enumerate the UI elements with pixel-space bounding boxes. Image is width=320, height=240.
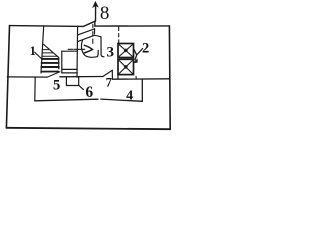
fan diamond upper	[124, 49, 128, 53]
stair hypotenuse	[44, 44, 59, 57]
wall interior bottom right part	[101, 99, 143, 101]
leader line of label 6	[79, 85, 84, 89]
svg-text:8: 8	[100, 3, 110, 24]
closet bottom line	[62, 72, 77, 74]
wall jog diagonal at flue 8	[84, 21, 95, 26]
stair left edge	[41, 26, 44, 73]
stair tread line thin 1	[42, 49, 49, 51]
stair right edge	[58, 57, 60, 69]
stair tread bar thick 1	[42, 58, 59, 60]
stair tread bar thick 2	[42, 62, 59, 64]
wall outer top-right segment	[95, 25, 169, 27]
dashed centerline of flue	[92, 24, 94, 43]
fan X upper	[119, 44, 133, 57]
wall interior vertical W1	[76, 26, 79, 77]
flow arrow head	[84, 45, 92, 53]
wall interior horizontal middle at y77	[60, 76, 103, 78]
svg-text:7: 7	[106, 76, 112, 90]
stair bottom diagonal	[47, 72, 60, 77]
closet left edge	[61, 51, 63, 73]
wall jog vertical at flue 8	[94, 21, 96, 26]
small box 6 below wall	[66, 77, 83, 90]
svg-text:5: 5	[53, 77, 60, 93]
closet inner line	[62, 68, 77, 70]
duct vertical from A	[94, 29, 96, 34]
fan box upper	[118, 44, 134, 58]
stair tread line thin 2	[42, 52, 53, 54]
stair bottom horizontal	[41, 71, 58, 73]
connector below fan boxes	[117, 75, 119, 79]
stair tread line thin 3	[42, 55, 57, 57]
svg-text:6: 6	[85, 84, 93, 101]
closet room next to stair (5)	[62, 51, 77, 73]
closet top edge	[62, 50, 77, 52]
stair tread bar thick 3	[41, 66, 58, 68]
duct 3 assembly	[68, 24, 104, 57]
fan box lower	[118, 59, 134, 74]
fan X lower	[119, 60, 133, 74]
duct S-curve inner wall	[81, 40, 98, 58]
wall interior horizontal left at y77	[7, 76, 47, 78]
leader line of label 1	[35, 52, 42, 58]
svg-text:3: 3	[107, 44, 115, 60]
duct bend from B	[94, 35, 101, 37]
svg-text:1: 1	[30, 44, 36, 58]
wall jog vertical at 7	[111, 70, 113, 79]
exhaust arrow 8	[93, 2, 98, 22]
svg-text:4: 4	[126, 88, 133, 103]
wall outer left	[6, 26, 9, 128]
duct outer vertical	[101, 37, 104, 57]
tick below leader 2	[135, 76, 137, 78]
wall outer top-left segment	[10, 25, 84, 28]
wall vertical end of room 4	[141, 79, 143, 101]
wall interior bottom left part	[35, 99, 98, 101]
fan box column 2	[118, 27, 134, 79]
duct diagonal B	[78, 35, 94, 41]
wall outer bottom	[6, 128, 170, 129]
fan diamond lower	[124, 65, 128, 69]
svg-text:2: 2	[142, 41, 149, 57]
flow arrow into duct	[68, 48, 84, 50]
dashed line above fan boxes	[118, 27, 120, 44]
leader arrow of label 2	[134, 49, 143, 79]
wall jog diagonal at 7	[103, 70, 112, 76]
wall outer right	[168, 26, 171, 129]
wall interior horizontal right at y79	[112, 78, 169, 80]
duct diagonal A	[78, 29, 95, 35]
wall step vertical x35	[34, 77, 36, 101]
staircase 1	[35, 26, 60, 77]
